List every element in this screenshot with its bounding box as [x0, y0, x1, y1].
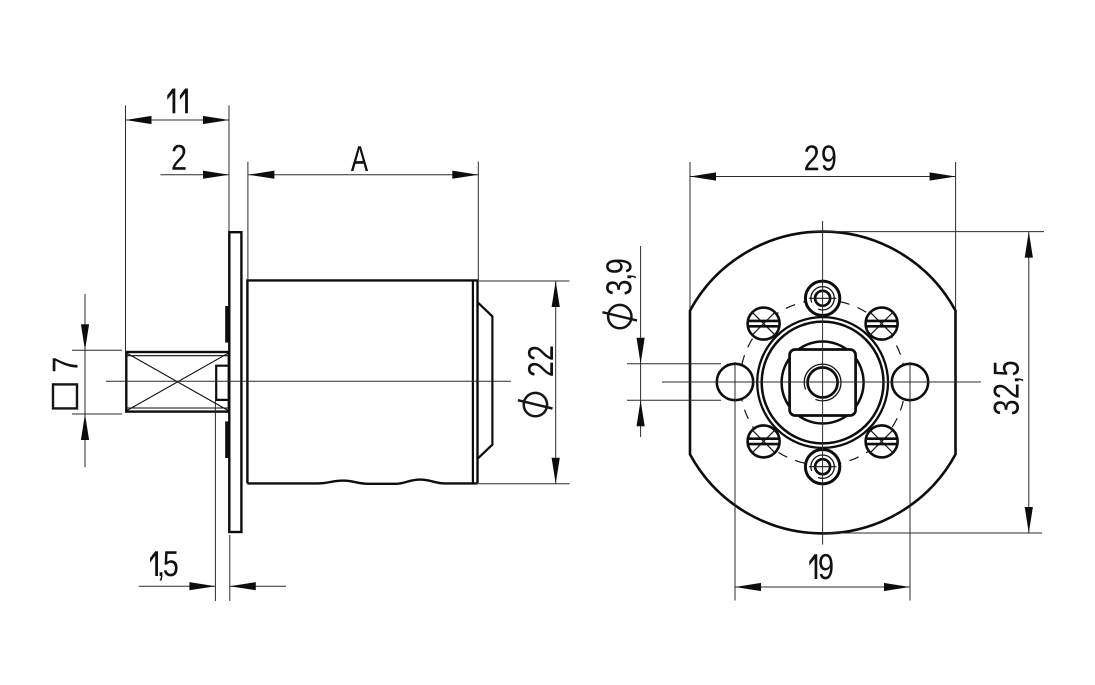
- cylinder end inner edge: [472, 282, 474, 484]
- dimension square 7: [72, 349, 122, 351]
- screw upper-right: [866, 308, 898, 340]
- side hole left: [717, 364, 753, 400]
- phi symbol of phi3,9: [608, 305, 631, 328]
- text 22 rotated: [528, 347, 553, 376]
- dimension 2: [161, 174, 230, 176]
- bolt circle (dashed): [740, 300, 905, 465]
- screw upper-left: [748, 308, 780, 340]
- text 7 rotated: [53, 358, 78, 371]
- shaft inner edge top: [126, 355, 229, 357]
- center line through right hole: [909, 362, 911, 601]
- dimension A: [247, 162, 249, 280]
- center line through left hole: [734, 362, 736, 601]
- flange body truncated circle: [690, 232, 956, 534]
- shaft diagonal 1: [126, 353, 229, 411]
- text 3,9 rotated: [606, 260, 636, 295]
- screw lower-right: [866, 425, 898, 457]
- vertical center line right view: [822, 221, 824, 545]
- cylinder tip cam: [478, 303, 493, 459]
- dimension 11: [125, 105, 127, 351]
- cylinder body outline: [247, 280, 477, 483]
- dimension 1,5: [214, 401, 216, 602]
- phi symbol of phi22: [524, 393, 547, 416]
- center hole: [808, 368, 838, 398]
- square symbol of dim 7: [53, 384, 77, 408]
- horizontal center line right view: [662, 381, 981, 383]
- screw lower-left: [748, 425, 780, 457]
- shaft inner edge bottom: [126, 407, 229, 409]
- square shaft body: [126, 352, 229, 412]
- dimension 29: [689, 162, 691, 309]
- hub inner circle: [762, 322, 884, 444]
- flange plate: [229, 232, 241, 532]
- hub outer circle: [757, 317, 888, 448]
- dimension 19: [735, 586, 910, 588]
- center line left view: [106, 380, 511, 382]
- dimension 32,5: [814, 231, 1044, 233]
- square hole: [790, 350, 856, 416]
- clip notch upper: [225, 306, 229, 343]
- dimension phi 22: [479, 280, 570, 282]
- side hole right: [892, 364, 928, 400]
- screw bottom: [805, 450, 839, 484]
- cylinder break (wavy) bottom edge: [247, 480, 477, 484]
- dimension phi 3,9: [627, 363, 721, 365]
- thread arc around center hole: [804, 364, 841, 401]
- screw top: [805, 281, 839, 315]
- shaft diagonal 2: [126, 353, 229, 411]
- clip notch lower: [225, 421, 229, 458]
- neck between shaft and flange: [216, 366, 229, 400]
- square hole circumscribed circle: [782, 342, 864, 424]
- text 32,5 rotated: [994, 362, 1024, 415]
